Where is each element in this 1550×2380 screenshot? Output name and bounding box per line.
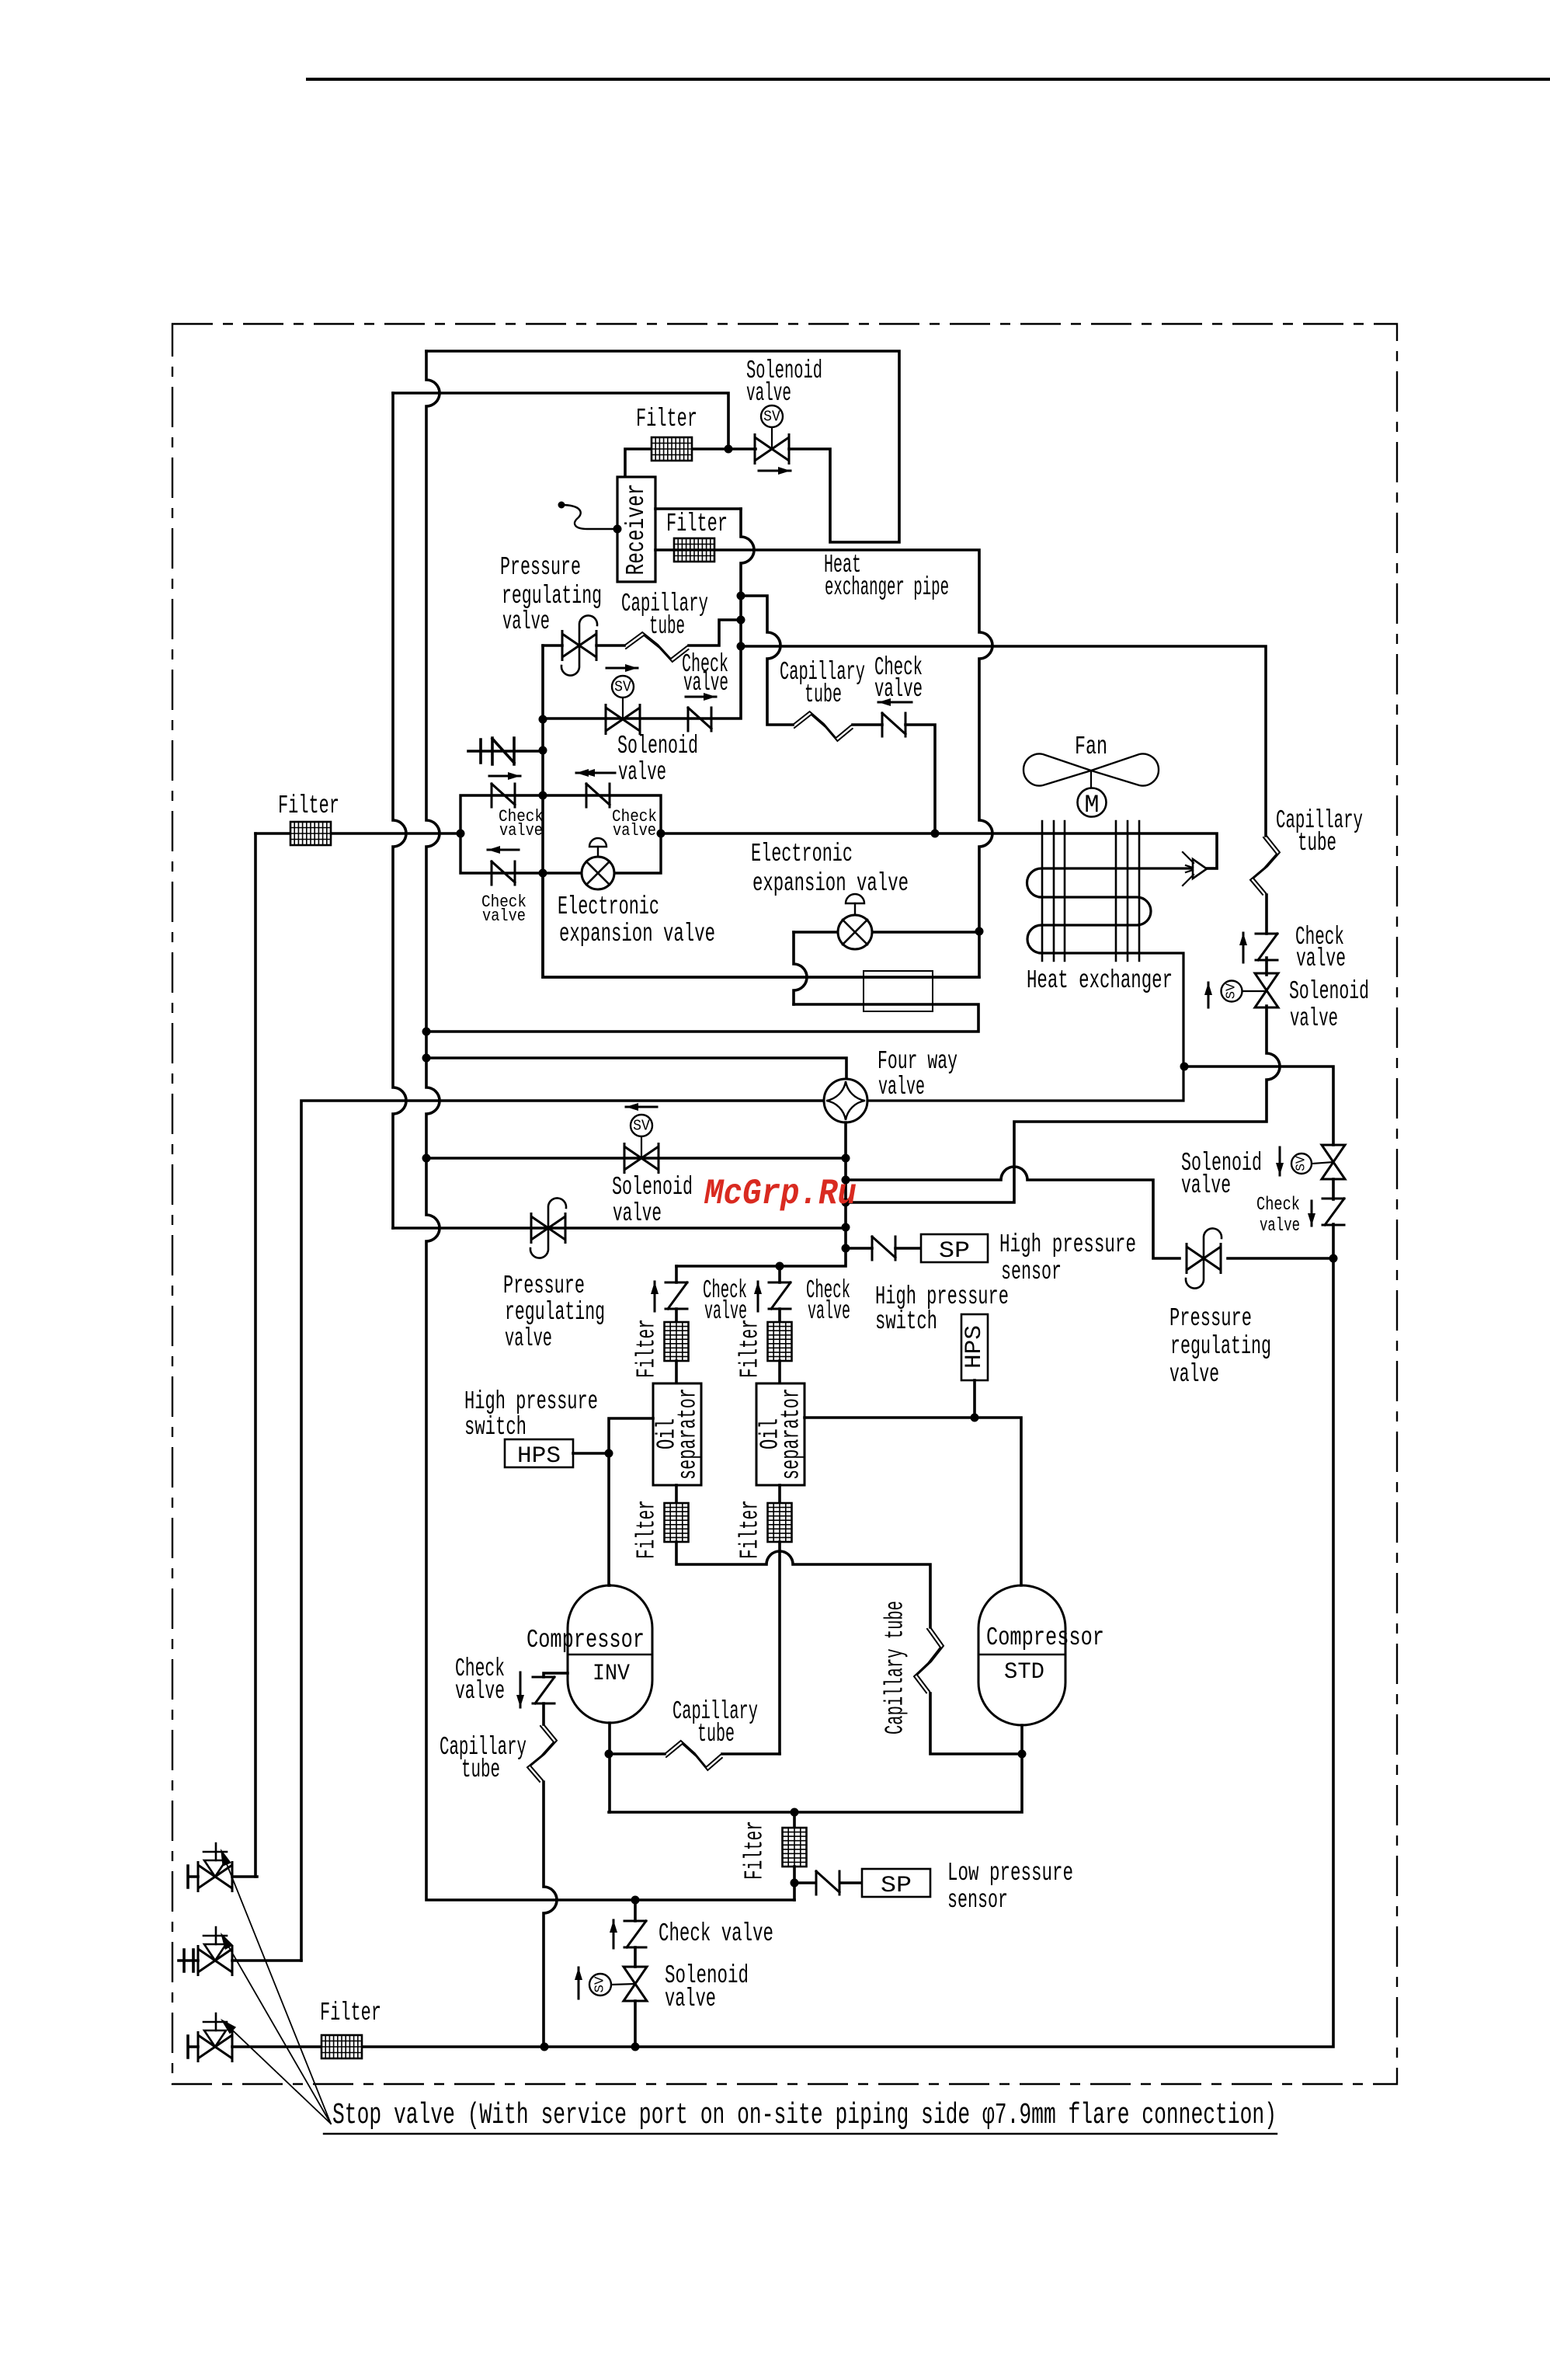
four way valve <box>824 1079 867 1122</box>
oil separator 1 vessel <box>653 1383 701 1485</box>
svg-text:Four way: Four way <box>878 1047 957 1076</box>
arrow down left of CV-r2 <box>1311 1201 1313 1226</box>
svg-text:Solenoid: Solenoid <box>1289 977 1369 1006</box>
wire CV-o2 to filter <box>778 1309 781 1322</box>
svg-text:valve: valve <box>683 669 728 698</box>
wire y1328 <box>426 1004 978 1032</box>
check valve CV-eq x700 <box>533 1677 554 1703</box>
svg-text:sensor: sensor <box>1001 1258 1062 1286</box>
wire capillary branch y767 <box>741 596 793 725</box>
svg-text:STD: STD <box>1004 1659 1044 1686</box>
svg-text:HPS: HPS <box>961 1325 988 1369</box>
stop valve leader arrows <box>227 1864 331 2124</box>
arrow up left of SV-r1 <box>1208 983 1210 1007</box>
arrow up left of CV-r1 <box>1242 933 1245 962</box>
junction dot y1073 x1204 <box>931 830 940 838</box>
stop valve C gas <box>198 2035 232 2058</box>
heat exchanger pipe inner rect <box>864 971 933 1011</box>
fan blades <box>1023 754 1091 786</box>
rail x506 <box>393 393 406 1228</box>
junction dot HPS1 <box>605 1449 613 1458</box>
svg-text:Solenoid: Solenoid <box>612 1173 693 1202</box>
STD bottom port <box>609 1725 1022 1812</box>
four way valve to stop valve rail x388 <box>301 1101 824 1961</box>
svg-text:expansion valve: expansion valve <box>559 920 715 948</box>
svg-text:Low pressure: Low pressure <box>947 1859 1073 1888</box>
wire filter F3 to LP line <box>793 1867 796 1900</box>
wire y831 right end up to dot x954 <box>689 620 741 645</box>
check valve CV-s x818 <box>624 1921 646 1947</box>
wire HPS2 stem <box>973 1380 976 1418</box>
arrow down left of SV-r2 <box>1279 1147 1281 1175</box>
check valve CV1 bridge top-left <box>492 784 515 807</box>
svg-text:Compressor: Compressor <box>527 1626 645 1655</box>
svg-text:valve: valve <box>1290 1004 1338 1033</box>
svg-text:tube: tube <box>1298 829 1336 858</box>
wire PRV3 to x1717 <box>1228 1257 1333 1260</box>
wire x1198 to STD suction <box>930 1693 1022 1754</box>
svg-text:tube: tube <box>649 612 685 641</box>
svg-text:Check valve: Check valve <box>659 1919 773 1948</box>
filter F2 <box>674 538 714 562</box>
wire filter to oil separator 1 <box>675 1361 678 1383</box>
wire y1630 dot x1004 <box>776 1262 784 1271</box>
wire y831 capillary to corner x926 <box>596 644 624 647</box>
svg-text:switch: switch <box>464 1413 527 1442</box>
wire x1717 between valves <box>1332 1179 1335 1199</box>
wire y933 to check valve <box>853 723 882 726</box>
oil return INV side to capillary x1198 <box>676 1542 930 1627</box>
top rule line <box>308 78 1550 81</box>
svg-text:Filter: Filter <box>741 1821 770 1880</box>
check valve CV-b y933 <box>882 713 905 736</box>
svg-text:valve: valve <box>505 1324 552 1353</box>
svg-text:valve: valve <box>613 1199 662 1228</box>
compressor INV vessel <box>568 1585 652 1723</box>
svg-text:valve: valve <box>499 821 543 840</box>
arrow flow right above SV-b <box>606 667 638 670</box>
high pressure switch HPS2 box <box>961 1314 988 1380</box>
wire HPS1 to INV riser <box>573 1452 609 1455</box>
wire zigzag to x1004 <box>722 1752 780 1755</box>
svg-text:valve: valve <box>502 607 550 636</box>
svg-text:Filter: Filter <box>736 1500 765 1559</box>
solenoid valve SV-c y1491 <box>624 1147 659 1170</box>
wire oil separator2 bottom to filter <box>778 1485 781 1502</box>
svg-text:regulating: regulating <box>1170 1332 1271 1361</box>
junction dots bridge box <box>539 792 547 800</box>
arrow flow right y997 <box>489 775 520 778</box>
wire to SP2 box <box>840 1881 862 1884</box>
wire to SP box <box>895 1247 921 1250</box>
svg-text:switch: switch <box>875 1307 937 1336</box>
wire x1631 down to y1444 <box>846 1006 1280 1202</box>
stop valve B gas-eq <box>198 1949 232 1972</box>
arrow left above CV2 <box>582 772 613 774</box>
wire SV-s to bottom line <box>634 2001 637 2047</box>
junction dots on x954 receiver drop <box>737 592 745 600</box>
svg-text:Electronic: Electronic <box>558 893 659 921</box>
wire y1073 bridge to heat exchanger <box>661 833 1217 868</box>
svg-text:Filter: Filter <box>636 405 697 433</box>
check valve CV-r1 x1631 <box>1256 934 1277 960</box>
pressure regulating valve PRV1 <box>562 634 596 657</box>
svg-text:Pressure: Pressure <box>503 1272 585 1300</box>
junction dot x1717 y1620 <box>1329 1254 1338 1263</box>
high pressure switch HPS1 box <box>505 1439 573 1467</box>
compressor INV divider <box>568 1654 652 1656</box>
svg-text:Pressure: Pressure <box>500 553 581 582</box>
receiver oil pickup squiggle <box>561 505 617 529</box>
four way valve bottom rail x1089 <box>676 1122 846 1266</box>
junction dot EEV2 right <box>975 927 984 936</box>
svg-text:Filter: Filter <box>278 792 339 820</box>
liquid rail x329 to stop valve A <box>254 833 257 1877</box>
svg-text:tube: tube <box>805 680 842 709</box>
filter F-bottom <box>321 2035 362 2058</box>
arrow flow right below CV-a label <box>686 696 716 698</box>
svg-text:valve: valve <box>808 1297 850 1326</box>
svg-text:Capillary tube: Capillary tube <box>881 1601 910 1735</box>
distributor nozzle <box>1193 859 1207 879</box>
svg-text:expansion valve: expansion valve <box>752 869 909 898</box>
filter F-o1 top <box>665 1322 689 1361</box>
wire filter2 to heat-exchanger-pipe y708 <box>543 550 992 977</box>
junction dot filter1-SV1 <box>725 445 733 454</box>
caption underline <box>324 2133 1277 2135</box>
oil return STD side down <box>778 1542 781 1754</box>
heat exchanger fins <box>1041 821 1044 961</box>
filter F-left <box>290 822 331 845</box>
oil separator 2 vessel <box>756 1383 805 1485</box>
svg-text:SV: SV <box>1295 1155 1309 1171</box>
gas rail x1717 down to bottom <box>232 1224 1333 2047</box>
wire liquid pipe2 top <box>393 393 728 449</box>
svg-text:SV: SV <box>593 1976 608 1993</box>
wire filter to oil separator 2 <box>778 1361 781 1383</box>
suction branch x818 check valve <box>634 1900 637 1921</box>
svg-text:SV: SV <box>763 409 780 426</box>
filter F3 <box>783 1828 807 1867</box>
wire y1362 to four way valve top <box>426 1058 846 1079</box>
wire EEV2 line y1200 <box>794 931 979 934</box>
wire to capillary x700 <box>542 1703 545 1724</box>
wire x1631 to solenoid <box>1265 958 1268 975</box>
svg-text:valve: valve <box>1296 945 1346 973</box>
wire receiver top outlet y655 <box>655 507 741 510</box>
junction dot y2446 x818 <box>631 1896 640 1905</box>
heat exchanger coil <box>867 868 1193 1101</box>
svg-text:exchanger pipe: exchanger pipe <box>825 573 949 602</box>
wire oil separator1 bottom to filter <box>675 1485 678 1502</box>
check valve CV-r2 x1717 <box>1322 1199 1344 1225</box>
check valve CV3 bridge bottom <box>492 861 515 885</box>
low pressure sensor SP box <box>862 1869 930 1897</box>
svg-text:valve: valve <box>746 379 791 408</box>
compressor STD vessel <box>978 1585 1065 1725</box>
svg-text:Filter: Filter <box>736 1319 765 1378</box>
svg-text:Heat exchanger: Heat exchanger <box>1027 966 1173 995</box>
check valve CV-o2 <box>769 1282 791 1309</box>
svg-text:regulating: regulating <box>505 1298 605 1327</box>
check valve CV-lp <box>816 1871 839 1895</box>
junction dots bottom gas line <box>540 2043 549 2051</box>
oil equalizer line INV left <box>544 1673 568 1677</box>
wire y1519 to PRV3 <box>846 1167 1180 1258</box>
high pressure sensor SP box <box>921 1234 988 1262</box>
INV top port wire <box>608 1584 611 1587</box>
wire y933 corner down to y1073 <box>905 725 935 833</box>
arrow left below CV3 <box>488 849 519 851</box>
filter F-o2 bottom <box>768 1503 792 1542</box>
solenoid valve SV-r1 x1631 vertical <box>1255 973 1278 1007</box>
wire x1631 capillary to check valve <box>1265 895 1268 934</box>
arrow flow right under SV1 <box>759 470 791 472</box>
svg-text:valve: valve <box>874 675 923 704</box>
wire CV-o1 to filter <box>675 1309 678 1322</box>
svg-text:Pressure: Pressure <box>1169 1304 1252 1333</box>
wire heat exchange line y832 right <box>741 646 1266 836</box>
svg-text:valve: valve <box>1181 1171 1231 1200</box>
svg-text:Filter: Filter <box>633 1319 662 1378</box>
oil capillary line INV y2258 <box>609 1752 665 1755</box>
junction dots x1089 <box>842 1154 850 1163</box>
junction dot HPS2 <box>971 1414 979 1422</box>
wire filter left line y1073 <box>255 832 460 835</box>
filter F-o2 top <box>768 1322 792 1361</box>
svg-text:M: M <box>1084 791 1099 819</box>
electronic expansion valve EEV1 <box>582 857 614 889</box>
electronic expansion valve EEV2 branch <box>792 1003 795 1006</box>
check valve CV2 bridge top-right <box>586 784 610 807</box>
pressure regulating valve PRV3 <box>1187 1247 1221 1270</box>
svg-text:regulating: regulating <box>502 582 602 611</box>
wire hot gas bypass y1491 <box>426 1157 846 1160</box>
junction dot coil outlet x1525 <box>1180 1063 1189 1071</box>
svg-text:valve: valve <box>613 821 656 840</box>
svg-text:Stop valve (With service port: Stop valve (With service port on on-site… <box>332 2099 1277 2132</box>
check valve bridge box <box>460 795 661 873</box>
svg-text:Electronic: Electronic <box>751 840 853 868</box>
wire CV-s to SV-s <box>634 1947 637 1967</box>
check valve CV-sp y1607 <box>872 1237 895 1260</box>
svg-text:tube: tube <box>461 1755 500 1784</box>
svg-text:valve: valve <box>1169 1360 1219 1389</box>
arrow down left of CV-eq <box>520 1672 522 1707</box>
svg-text:Receiver: Receiver <box>622 484 651 576</box>
wire oil separator 2 to STD compressor <box>805 1418 1021 1585</box>
compressor STD divider <box>978 1654 1065 1656</box>
svg-text:Fan: Fan <box>1075 732 1107 761</box>
stop valve A liquid <box>198 1865 232 1888</box>
wire y1607 to high pressure sensor <box>846 1247 872 1250</box>
filter F1 <box>652 437 692 461</box>
pressure regulating valve PRV2 <box>531 1216 565 1240</box>
junction dot suction y2333 x1023 <box>791 1808 799 1817</box>
arrow up left of CV-o2 <box>757 1282 759 1311</box>
arrow left above SV-c <box>626 1106 657 1108</box>
wire x954 drop with hop over filter2 line <box>543 509 754 719</box>
svg-text:SV: SV <box>633 1118 650 1135</box>
svg-text:High pressure: High pressure <box>999 1230 1136 1259</box>
svg-text:Filter: Filter <box>633 1500 662 1559</box>
svg-text:SV: SV <box>614 679 631 696</box>
wire y1373 crossover <box>1184 1066 1333 1145</box>
filter F3 suction stub <box>793 1812 796 1828</box>
solenoid valve SV-s x818 vertical <box>624 1967 647 2001</box>
INV discharge riser x784 <box>609 1418 653 1585</box>
svg-text:High pressure: High pressure <box>464 1387 598 1416</box>
svg-text:valve: valve <box>482 906 526 926</box>
wire PRV1 row y831 <box>543 644 562 647</box>
capillary tube zigzag y2258 <box>665 1741 722 1767</box>
EEV2 valve symbol <box>838 915 872 949</box>
svg-text:separator: separator <box>777 1388 806 1480</box>
svg-text:McGrp.Ru: McGrp.Ru <box>704 1174 857 1214</box>
svg-text:valve: valve <box>618 758 666 787</box>
arrow flow left above CV-b <box>878 701 912 704</box>
solenoid valve SV-r2 x1717 vertical <box>1322 1145 1345 1179</box>
arrow flow left beside SV-b label <box>576 772 615 774</box>
svg-text:SP: SP <box>939 1238 970 1265</box>
svg-text:tube: tube <box>697 1720 735 1748</box>
svg-text:SP: SP <box>881 1873 912 1899</box>
oil separator column INV x871 <box>675 1266 678 1282</box>
svg-text:separator: separator <box>674 1388 703 1480</box>
junction dot LP branch <box>791 1879 799 1888</box>
oil separator column STD x1004 <box>778 1266 781 1282</box>
svg-text:SV: SV <box>1225 983 1239 999</box>
svg-text:Filter: Filter <box>666 510 728 538</box>
junction dot STD suction <box>1018 1750 1027 1759</box>
service stub with check valve y966 <box>468 738 543 764</box>
solenoid valve SV-b on y926 <box>606 708 640 731</box>
right column capillary from y832 <box>1253 836 1280 895</box>
INV bottom port <box>608 1723 611 1812</box>
capillary tube zigzag x700 <box>530 1724 557 1782</box>
receiver vessel <box>617 477 655 582</box>
svg-text:valve: valve <box>665 1985 716 2013</box>
svg-text:HPS: HPS <box>517 1443 561 1470</box>
wire x700 down to bottom line <box>544 1782 557 2047</box>
wire y1580 PRV2 row <box>393 1227 846 1230</box>
svg-text:Check: Check <box>1256 1195 1300 1216</box>
junction dot y926 left <box>539 715 547 724</box>
svg-text:Solenoid: Solenoid <box>617 732 698 760</box>
arrow up left of CV-o1 <box>654 1282 656 1311</box>
filter F-o1 bottom <box>665 1503 689 1542</box>
svg-text:valve: valve <box>1260 1216 1300 1237</box>
arrow up left of CV-s <box>613 1920 615 1948</box>
rail x549 <box>426 351 794 1900</box>
wire discharge gas pipe top <box>426 351 899 542</box>
check valve CV-a on y926 <box>688 708 711 731</box>
junction dot x699 y966 <box>539 746 547 755</box>
capillary tube zigzag x1198 <box>917 1627 944 1693</box>
solenoid valve SV1 top <box>755 437 789 461</box>
wire filter1 line to receiver <box>625 449 756 477</box>
junction dots rail x549 <box>422 1028 431 1036</box>
svg-text:INV: INV <box>593 1661 630 1687</box>
left rail x699 from PRV row <box>543 645 979 977</box>
arrow up left of SV-s <box>578 1968 580 1999</box>
svg-text:Filter: Filter <box>320 1999 381 2027</box>
fan motor M <box>1090 771 1092 788</box>
capillary tube zigzag y831 <box>624 632 689 659</box>
unit boundary dash-dot border <box>172 324 1397 2084</box>
junction dot INV bottom <box>605 1750 613 1759</box>
svg-text:sensor: sensor <box>947 1886 1008 1915</box>
capillary tube zigzag y933 <box>793 712 853 738</box>
svg-text:valve: valve <box>455 1677 505 1706</box>
check valve CV-o1 <box>666 1282 687 1309</box>
svg-text:valve: valve <box>878 1073 925 1101</box>
svg-text:Compressor: Compressor <box>986 1623 1104 1652</box>
wire LP sensor line <box>794 1881 815 1884</box>
